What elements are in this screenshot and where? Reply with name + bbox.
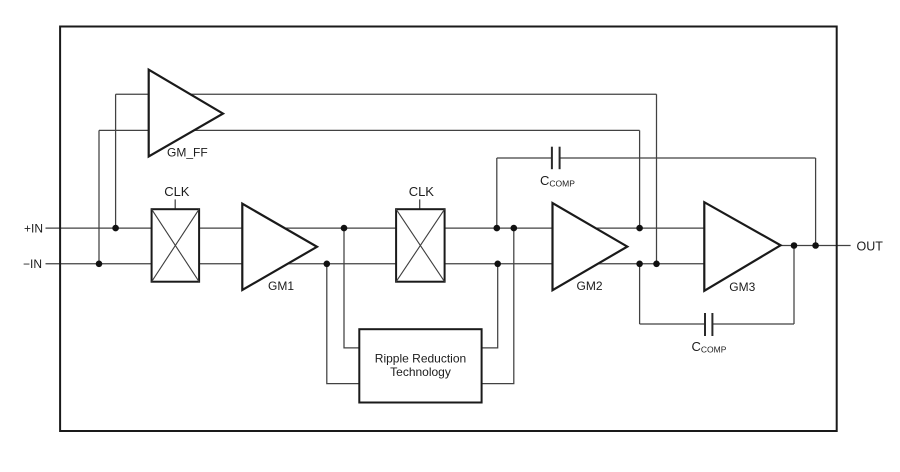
- wire top CCOMP right vertical to output: [815, 158, 817, 246]
- wire +IN upper rail: [46, 227, 705, 229]
- node upper rail to RRT left junction: [341, 225, 348, 232]
- wire +IN to GM_FF upper input vertical: [115, 94, 117, 228]
- wire lower rail down to RRT left lower: [327, 264, 360, 384]
- op-amp GM_FF: [149, 70, 223, 157]
- wire bottom CCOMP right vertical to output: [793, 246, 795, 325]
- node lower rail bottom CCOMP junction: [636, 261, 643, 268]
- svg-text:GM1: GM1: [268, 279, 294, 293]
- wire GM_FF lower output down to upper rail: [639, 130, 641, 228]
- wire top CCOMP horizontal right segment: [560, 157, 816, 159]
- wire bottom CCOMP horizontal right segment: [712, 323, 794, 325]
- wire CLK2 stub: [419, 199, 421, 209]
- svg-text:GM3: GM3: [729, 280, 755, 294]
- wire CLK1 stub: [174, 199, 176, 209]
- chopper CLK2: [396, 209, 445, 282]
- op-amp GM3: [704, 202, 780, 291]
- wire lower rail down to RRT right upper: [482, 264, 498, 348]
- chopper CLK1: [152, 209, 200, 282]
- capacitor CCOMP top plates: [552, 147, 560, 170]
- svg-text:Technology: Technology: [390, 365, 451, 379]
- node lower rail RRT right junction: [494, 261, 501, 268]
- wire GM_FF upper output down to lower rail: [656, 94, 658, 263]
- Ripple Reduction Technology block: [359, 329, 481, 402]
- svg-text:GM_FF: GM_FF: [167, 146, 208, 160]
- wire lower rail down to bottom CCOMP left: [639, 264, 641, 324]
- wire GM_FF upper path horizontal: [116, 93, 657, 95]
- wire top CCOMP horizontal left segment: [497, 157, 552, 159]
- node output bottom CCOMP junction: [791, 242, 798, 249]
- op-amp GM2: [553, 203, 628, 290]
- wire bottom CCOMP horizontal left segment: [640, 323, 705, 325]
- op-amp GM1: [242, 204, 317, 290]
- svg-text:+IN: +IN: [24, 222, 43, 236]
- node -IN to GM_FF junction: [96, 261, 103, 268]
- node lower rail feedforward junction: [653, 261, 660, 268]
- wire top CCOMP left vertical: [496, 158, 498, 228]
- node upper rail CCOMP junction: [494, 225, 501, 232]
- wire upper rail down to RRT right lower: [482, 228, 514, 384]
- svg-text:GM2: GM2: [577, 279, 603, 293]
- wire output line: [781, 245, 851, 247]
- svg-text:Ripple Reduction: Ripple Reduction: [375, 351, 466, 365]
- node lower rail to RRT left junction: [324, 261, 331, 268]
- wire -IN lower rail: [46, 263, 705, 265]
- svg-text:CLK: CLK: [164, 184, 190, 199]
- svg-text:CLK: CLK: [409, 184, 435, 199]
- svg-text:−IN: −IN: [23, 257, 42, 271]
- wire -IN to GM_FF lower input vertical: [98, 130, 100, 263]
- capacitor CCOMP bottom plates: [705, 313, 712, 336]
- wire GM_FF lower path horizontal: [99, 129, 640, 131]
- svg-text:OUT: OUT: [857, 240, 884, 254]
- node upper rail feedforward junction: [636, 225, 643, 232]
- node +IN to GM_FF junction: [112, 225, 119, 232]
- wire upper rail down to RRT left upper: [344, 228, 359, 348]
- outer box: [60, 27, 837, 432]
- node output top CCOMP junction: [812, 242, 819, 249]
- node upper rail RRT right junction: [511, 225, 518, 232]
